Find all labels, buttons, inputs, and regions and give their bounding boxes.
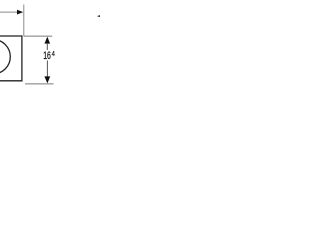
svg-text:16: 16 bbox=[43, 50, 51, 62]
wire: top width-dimension line bbox=[0, 11, 18, 13]
background bbox=[0, 0, 100, 100]
arrowhead: height dimension down arrow bbox=[44, 76, 50, 83]
wire: bottom extension line for height dimension bbox=[25, 83, 54, 85]
svg-text:4: 4 bbox=[52, 50, 55, 58]
wire: top extension line for height dimension bbox=[24, 35, 52, 37]
plate outline (flush plate front view, left part cropped) bbox=[0, 36, 22, 81]
wire: vertical extension line from plate right edge up to top dimension bbox=[23, 5, 25, 37]
wire: height dimension line upper segment bbox=[46, 43, 48, 50]
wire: height dimension line lower segment bbox=[46, 61, 48, 78]
arrowhead: height dimension up arrow bbox=[45, 37, 51, 44]
arrowhead: top dimension right arrow bbox=[17, 10, 23, 15]
arrowhead: cropped left-pointing arrow tip at right image edge bbox=[97, 15, 101, 18]
circle: flush button arc (center off-canvas left) bbox=[0, 40, 10, 74]
